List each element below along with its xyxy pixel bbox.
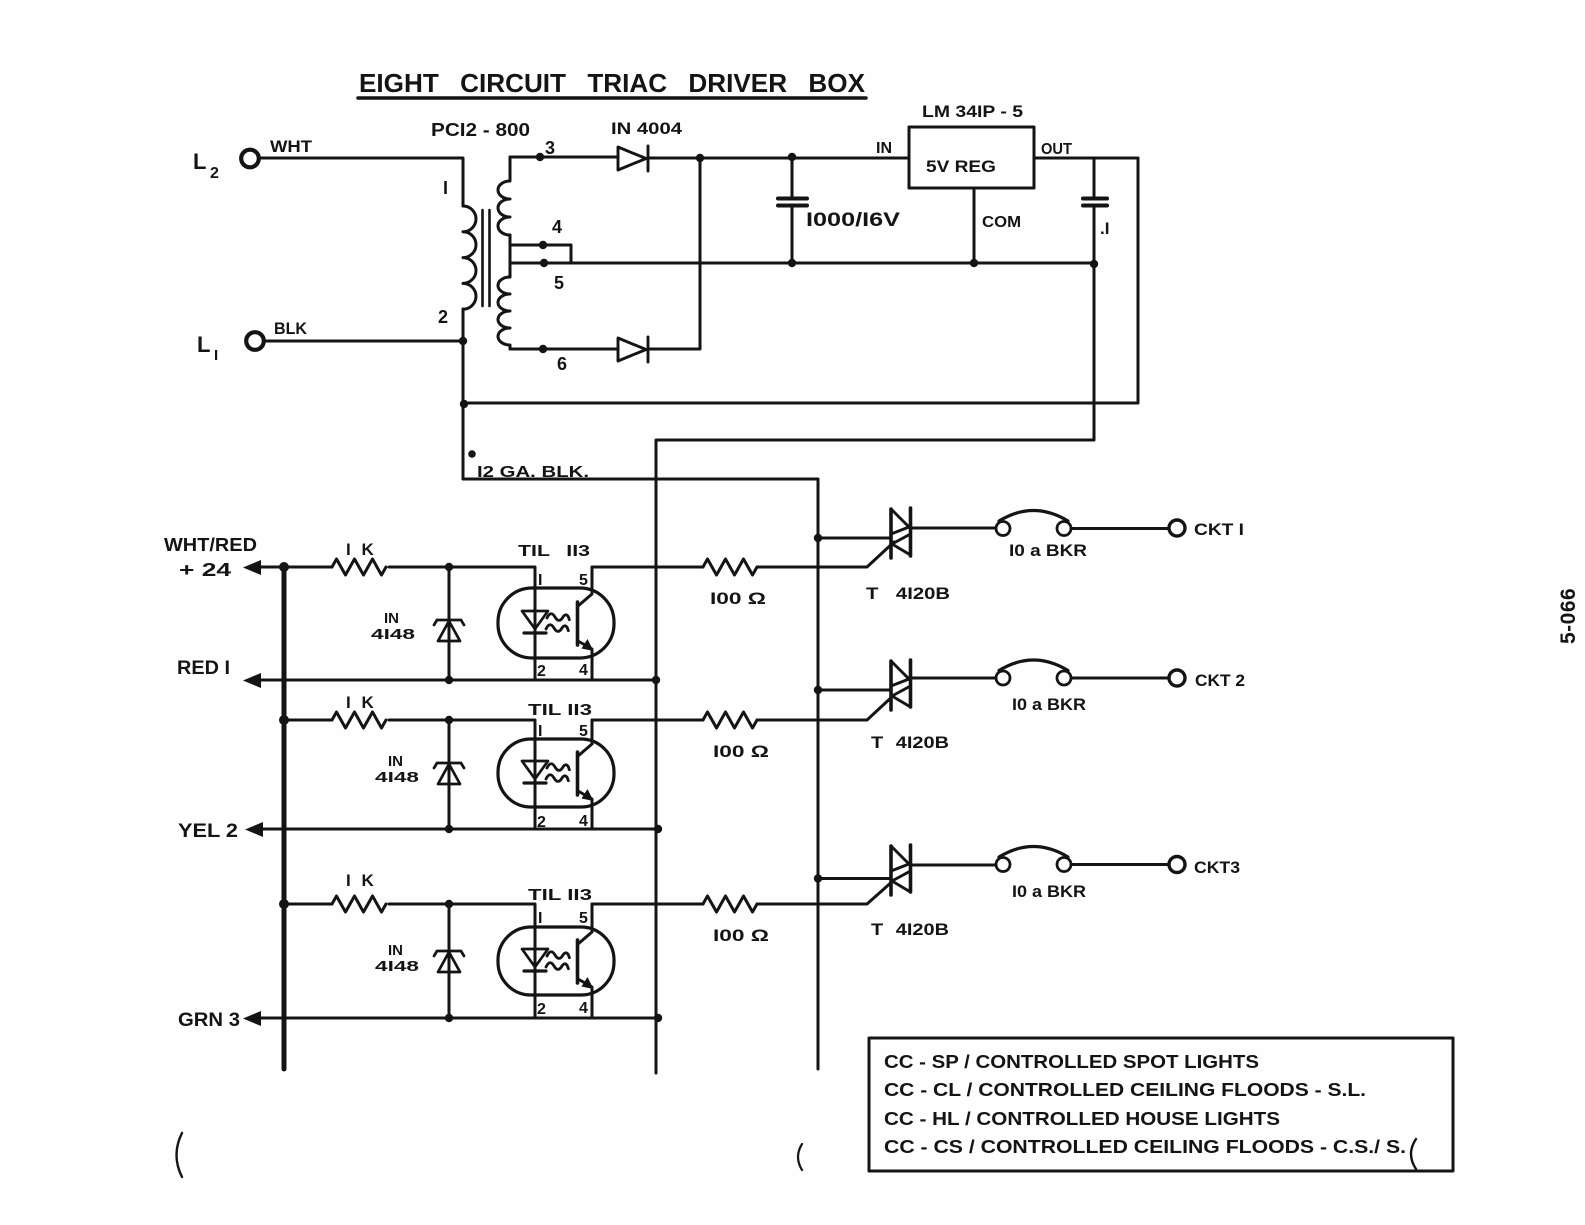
terminal L2 bbox=[241, 150, 259, 168]
breaker CB2 10a BKR bbox=[996, 671, 1010, 685]
svg-text:COM: COM bbox=[982, 214, 1021, 231]
terminal L1 bbox=[246, 332, 264, 350]
U3 emitter to pin 4 bbox=[578, 791, 592, 829]
resistor R1 1K bbox=[332, 559, 386, 575]
U4 collector to pin 5 bbox=[578, 904, 592, 944]
wire diode D2 up to rectifier junction bbox=[648, 158, 700, 349]
U3 collector to pin 5 bbox=[578, 720, 592, 756]
U4 coupling squiggles bbox=[546, 952, 569, 970]
wire GRN 3 rail bbox=[250, 1017, 658, 1020]
svg-text:5: 5 bbox=[579, 572, 588, 589]
node diode D4 top bbox=[445, 716, 453, 724]
terminal CKT 2 bbox=[1169, 670, 1185, 686]
wire R5 to triac Q2 gate bbox=[758, 695, 894, 720]
node rectifier junction bbox=[696, 154, 704, 162]
node C1 bottom junction bbox=[788, 259, 796, 267]
resistor R5 100 ohm bbox=[703, 712, 757, 728]
wire pin 3 bbox=[510, 156, 618, 159]
U3 LED triangle bbox=[522, 761, 548, 779]
svg-text:EIGHT CIRCUIT TRIAC DRIVER BOX: EIGHT CIRCUIT TRIAC DRIVER BOX bbox=[359, 68, 866, 98]
svg-text:RED I: RED I bbox=[177, 658, 230, 679]
diode D5 IN4148 symbol bbox=[434, 951, 464, 972]
transformer secondary lower winding (pin 5 to 6) bbox=[498, 277, 510, 349]
svg-text:L: L bbox=[197, 332, 210, 357]
svg-text:L: L bbox=[193, 149, 206, 174]
U3 transistor base bar bbox=[576, 752, 580, 795]
wire pin 5 center-tap ground rail bbox=[510, 262, 1094, 265]
capacitor C1 1000/16V leads bbox=[791, 158, 794, 263]
svg-text:2: 2 bbox=[438, 307, 448, 327]
svg-text:I0 a BKR: I0 a BKR bbox=[1012, 695, 1086, 714]
node AC bus to Q3 bbox=[814, 874, 822, 882]
wire L2 to transformer pin 1 bbox=[259, 158, 463, 206]
U4 transistor base bar bbox=[576, 940, 580, 983]
terminal CKT 1 bbox=[1169, 520, 1185, 536]
triac Q2 triangles bbox=[891, 661, 911, 707]
resistor R3 1K bbox=[332, 896, 386, 912]
svg-text:I2 GA. BLK.: I2 GA. BLK. bbox=[477, 464, 589, 481]
wire L1 BLK bbox=[264, 340, 463, 343]
svg-text:IN: IN bbox=[388, 942, 403, 959]
svg-text:2: 2 bbox=[537, 814, 546, 831]
paren mark bottom left bbox=[177, 1133, 183, 1177]
U2 transistor base bar bbox=[576, 602, 580, 645]
U4 LED lead pins 1-2 bbox=[534, 949, 537, 1018]
node COM junction bbox=[970, 259, 978, 267]
svg-text:CC - SP / CONTROLLED SPOT LIGH: CC - SP / CONTROLLED SPOT LIGHTS bbox=[884, 1052, 1259, 1072]
wire OUT to right and down to +5 rail bbox=[464, 158, 1138, 403]
resistor R6 100 ohm bbox=[703, 896, 757, 912]
triac Q3 triangles bbox=[891, 846, 911, 892]
node C2 bottom junction bbox=[1090, 260, 1098, 268]
wire U2 pin5 to R4 bbox=[592, 566, 703, 569]
svg-text:TIL II3: TIL II3 bbox=[518, 543, 590, 560]
U3 emitter arrowhead bbox=[582, 789, 594, 801]
arrow YEL 2 bbox=[245, 822, 263, 837]
svg-text:5-066: 5-066 bbox=[1557, 588, 1580, 644]
svg-text:WHT/RED: WHT/RED bbox=[164, 535, 257, 555]
node center bus ch1 junction bbox=[652, 676, 660, 684]
wire AC bus to Q3 MT1 bbox=[818, 877, 891, 880]
U3 coupling squiggles bbox=[546, 764, 569, 782]
title underline bbox=[358, 96, 866, 100]
svg-text:5V REG: 5V REG bbox=[926, 157, 996, 176]
svg-text:I00 Ω: I00 Ω bbox=[713, 742, 769, 761]
U3 LED lead pins 1-2 bbox=[534, 761, 537, 829]
svg-text:GRN 3: GRN 3 bbox=[178, 1010, 240, 1031]
svg-text:4I48: 4I48 bbox=[375, 769, 419, 786]
U2 LED cathode bar bbox=[524, 631, 546, 634]
svg-text:PCI2 - 800: PCI2 - 800 bbox=[431, 120, 530, 140]
node cap C1 top junction bbox=[788, 153, 796, 161]
svg-text:CC - CL / CONTROLLED CEILING F: CC - CL / CONTROLLED CEILING FLOODS - S.… bbox=[884, 1080, 1366, 1100]
wire AC bus to Q1 MT1 bbox=[818, 537, 891, 540]
svg-text:T 4I20B: T 4I20B bbox=[871, 733, 949, 752]
svg-text:I: I bbox=[214, 347, 218, 364]
legend box bbox=[869, 1038, 1453, 1171]
wire ch3 rail to R3 bbox=[284, 903, 332, 906]
node pin 6 dot bbox=[539, 345, 547, 353]
diode D4 IN4148 symbol bbox=[434, 763, 464, 784]
wire +24 rail to R1 bbox=[250, 566, 332, 569]
svg-text:IN: IN bbox=[384, 610, 399, 627]
wire R6 to triac Q3 gate bbox=[758, 880, 894, 904]
svg-text:IN: IN bbox=[876, 140, 892, 157]
svg-text:T 4I20B: T 4I20B bbox=[866, 584, 950, 603]
wire R3 to opto U4 pin1 bbox=[389, 904, 535, 949]
U2 emitter arrowhead bbox=[582, 639, 594, 651]
svg-text:+ 24: + 24 bbox=[179, 560, 231, 580]
U2 collector to pin 5 bbox=[578, 567, 592, 606]
arrow RED 1 bbox=[243, 673, 261, 688]
svg-text:IN 4004: IN 4004 bbox=[611, 119, 683, 138]
svg-text:5: 5 bbox=[554, 273, 564, 293]
svg-text:CKT 2: CKT 2 bbox=[1195, 671, 1245, 690]
node D5 bottom bbox=[445, 1014, 453, 1022]
breaker CB3 10a BKR bbox=[996, 858, 1010, 872]
wire CB3 to CKT 3 bbox=[1071, 863, 1169, 866]
node pin 3 dot bbox=[536, 153, 544, 161]
resistor R4 100 ohm bbox=[703, 559, 757, 575]
wire Q3 MT2 to breaker 3 bbox=[911, 864, 997, 867]
svg-text:I000/I6V: I000/I6V bbox=[806, 210, 900, 231]
svg-text:I0 a BKR: I0 a BKR bbox=[1012, 882, 1086, 901]
svg-text:6: 6 bbox=[557, 354, 567, 374]
svg-text:4: 4 bbox=[579, 662, 588, 679]
U3 LED cathode bar bbox=[524, 781, 546, 784]
svg-text:WHT: WHT bbox=[270, 137, 313, 156]
arrow +24 bbox=[243, 560, 261, 575]
transformer secondary upper winding (pin 3 to 4) bbox=[498, 157, 510, 235]
U2 LED triangle bbox=[522, 611, 548, 629]
diode D4 IN4148 lead bbox=[448, 720, 451, 829]
capacitor C1 plates bbox=[778, 199, 807, 206]
wire R2 to opto U3 pin1 bbox=[389, 720, 535, 761]
wire Q2 MT2 to breaker 2 bbox=[911, 677, 997, 680]
svg-text:4I48: 4I48 bbox=[371, 626, 415, 643]
wire AC bus to Q2 MT1 bbox=[818, 689, 891, 692]
resistor R2 1K bbox=[332, 712, 386, 728]
transformer T1 primary winding (pins 1-2) bbox=[463, 206, 476, 309]
regulator U1 LM341P-5 box bbox=[909, 127, 1034, 188]
svg-text:I: I bbox=[538, 723, 542, 740]
triac Q3 bars bbox=[891, 845, 911, 895]
diode D5 IN4148 lead bbox=[448, 904, 451, 1018]
node center bus ch2 junction bbox=[654, 825, 662, 833]
svg-text:4I48: 4I48 bbox=[375, 958, 419, 975]
node +5 rail left junction bbox=[460, 400, 468, 408]
node AC bus to Q2 bbox=[814, 686, 822, 694]
node center bus ch3 junction bbox=[654, 1014, 662, 1022]
svg-text:T 4I20B: T 4I20B bbox=[871, 920, 949, 939]
svg-text:BLK: BLK bbox=[274, 319, 308, 338]
wire CB1 to CKT 1 bbox=[1071, 527, 1169, 530]
svg-text:5: 5 bbox=[579, 723, 588, 740]
U4 emitter to pin 4 bbox=[578, 979, 592, 1018]
optocoupler U2 TIL113 body bbox=[498, 588, 614, 658]
svg-text:I: I bbox=[538, 910, 542, 927]
svg-text:CC - CS / CONTROLLED CEILING F: CC - CS / CONTROLLED CEILING FLOODS - C.… bbox=[884, 1137, 1406, 1157]
svg-text:I K: I K bbox=[346, 540, 377, 559]
svg-text:TIL II3: TIL II3 bbox=[528, 887, 592, 904]
svg-text:4: 4 bbox=[552, 217, 562, 237]
svg-text:I00 Ω: I00 Ω bbox=[710, 589, 766, 608]
node L1-pin2 junction bbox=[459, 337, 467, 345]
wire R1 to opto U2 pin1 bbox=[389, 567, 535, 611]
wire U3 pin5 to R5 bbox=[592, 719, 703, 722]
svg-text:CKT3: CKT3 bbox=[1194, 858, 1240, 877]
U4 LED cathode bar bbox=[524, 969, 546, 972]
transformer core bbox=[483, 210, 490, 306]
svg-text:I: I bbox=[443, 178, 448, 198]
triac Q2 bars bbox=[891, 660, 911, 710]
svg-text:CC - HL / CONTROLLED HOUSE LIG: CC - HL / CONTROLLED HOUSE LIGHTS bbox=[884, 1109, 1280, 1129]
U2 emitter to pin 4 bbox=[578, 641, 592, 680]
U2 LED lead pins 1-2 bbox=[534, 611, 537, 680]
svg-text:I00 Ω: I00 Ω bbox=[713, 926, 769, 945]
wire COM lead bbox=[973, 188, 976, 263]
optocoupler U3 TIL113 body bbox=[498, 739, 614, 807]
svg-text:OUT: OUT bbox=[1041, 141, 1072, 158]
paren mark legend bbox=[1411, 1139, 1416, 1169]
wire Q1 MT2 to breaker 1 bbox=[911, 527, 997, 530]
node +24 bus ch2 bbox=[279, 715, 289, 725]
capacitor C2 .1 leads bbox=[656, 158, 1094, 1073]
optocoupler U4 TIL113 body bbox=[498, 927, 614, 995]
capacitor C2 plates bbox=[1083, 199, 1107, 206]
U4 LED triangle bbox=[522, 949, 548, 967]
wire R4 to triac Q1 gate bbox=[758, 542, 894, 567]
node +24 bus ch3 bbox=[279, 899, 289, 909]
svg-text:I: I bbox=[538, 572, 542, 589]
svg-text:4: 4 bbox=[579, 1000, 588, 1017]
node pin 4 dot bbox=[539, 241, 547, 249]
triac Q1 bars bbox=[891, 508, 911, 558]
wire pin 4 stub bbox=[510, 245, 571, 263]
breaker CB1 10a BKR bbox=[996, 522, 1010, 536]
triac Q1 triangles bbox=[891, 509, 911, 555]
svg-text:2: 2 bbox=[210, 165, 219, 182]
svg-text:5: 5 bbox=[579, 910, 588, 927]
node +24 bus top bbox=[279, 562, 289, 572]
svg-text:2: 2 bbox=[537, 1001, 546, 1018]
svg-text:TIL II3: TIL II3 bbox=[528, 702, 592, 719]
wire ch2 rail to R2 bbox=[284, 719, 332, 722]
wire pin 2 down to 12 GA rail and AC bus bbox=[463, 309, 818, 1069]
wire CB2 to CKT 2 bbox=[1071, 677, 1169, 680]
U2 coupling squiggles bbox=[546, 614, 569, 632]
U4 emitter arrowhead bbox=[582, 977, 594, 989]
svg-text:IN: IN bbox=[388, 753, 403, 770]
node diode D3 top bbox=[445, 563, 453, 571]
diode D3 IN4148 lead bbox=[448, 567, 451, 680]
svg-text:.I: .I bbox=[1100, 219, 1109, 238]
svg-text:I0 a BKR: I0 a BKR bbox=[1009, 541, 1087, 560]
footnote mark bbox=[468, 450, 476, 458]
+24 left bus bbox=[282, 567, 287, 1069]
diode D2 IN4004 lower bbox=[618, 337, 648, 362]
svg-text:I K: I K bbox=[346, 693, 377, 712]
paren mark bottom middle bbox=[798, 1144, 802, 1170]
svg-text:3: 3 bbox=[545, 138, 555, 158]
svg-text:I K: I K bbox=[346, 871, 377, 890]
svg-text:2: 2 bbox=[537, 663, 546, 680]
node D3 bottom bbox=[445, 676, 453, 684]
wire YEL 2 rail bbox=[252, 828, 658, 831]
node diode D5 top bbox=[445, 900, 453, 908]
wire RED 1 rail bbox=[250, 679, 656, 682]
svg-text:YEL 2: YEL 2 bbox=[178, 821, 238, 842]
node pin 5 dot bbox=[540, 259, 548, 267]
node AC bus to Q1 bbox=[814, 534, 822, 542]
svg-text:4: 4 bbox=[579, 813, 588, 830]
diode D3 IN4148 symbol bbox=[434, 620, 464, 641]
arrow GRN 3 bbox=[243, 1011, 261, 1026]
wire U4 pin5 to R6 bbox=[592, 903, 703, 906]
wire pin 6 bbox=[510, 348, 618, 351]
terminal CKT 3 bbox=[1169, 857, 1185, 873]
svg-text:LM 34IP - 5: LM 34IP - 5 bbox=[922, 102, 1023, 121]
svg-text:CKT I: CKT I bbox=[1194, 520, 1244, 539]
transformer secondary straight section (pins 4-5) bbox=[509, 235, 512, 277]
wire diode D1 to regulator IN bbox=[648, 157, 909, 160]
node D4 bottom bbox=[445, 825, 453, 833]
diode D1 IN4004 upper bbox=[618, 146, 648, 171]
